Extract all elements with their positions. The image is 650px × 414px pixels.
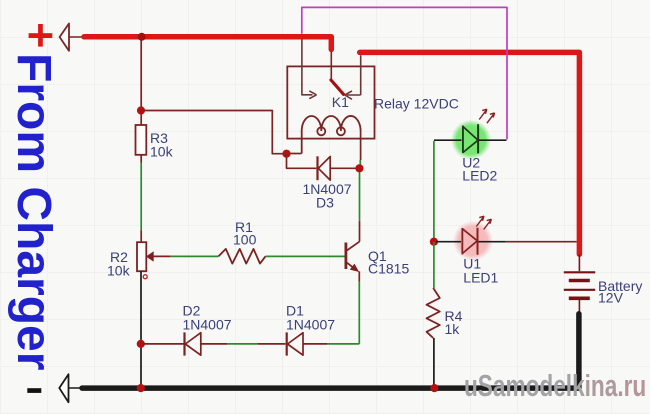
relay K1 box (287, 66, 374, 138)
node junction above R3 (137, 106, 145, 114)
diode D2 (183, 303, 232, 356)
node diode row left junction (137, 340, 145, 348)
wire + rail to battery (thick red) (360, 52, 580, 254)
node From Charger label (7, 53, 60, 370)
node LED1 junction (430, 238, 438, 246)
transistor Q1 emitter (347, 248, 410, 277)
svg-text:1N4007: 1N4007 (183, 316, 232, 332)
svg-text:K1: K1 (332, 94, 349, 110)
wire ground rail (thick black) (82, 314, 579, 388)
relay K1 coil (302, 116, 361, 154)
wire LED1 node down to R4 (green) (433, 242, 435, 288)
svg-text:LED1: LED1 (463, 270, 498, 286)
svg-text:From Charger: From Charger (7, 53, 60, 370)
wire from + rail down to R3 (140, 39, 142, 125)
transistor Q1 base bar (344, 243, 347, 270)
node coil left junction (282, 150, 290, 158)
wire coil left to node (287, 153, 302, 155)
svg-text:uSamodelkina.ru: uSamodelkina.ru (464, 367, 646, 402)
svg-text:D3: D3 (316, 195, 334, 211)
transistor Q1 collector (347, 242, 360, 251)
wire LED2 left down to LED1 node (green) (433, 141, 435, 241)
wire emitter to diode row (358, 271, 360, 344)
wire + rail top (thick red) (84, 37, 331, 50)
diode D3 (303, 156, 352, 210)
watermark (464, 367, 646, 402)
svg-text:1N4007: 1N4007 (286, 316, 335, 332)
label U1 LED1 (463, 256, 498, 286)
potentiometer R2 (107, 242, 153, 279)
node + (charger positive label) (29, 24, 53, 47)
node - (charger negative label) (27, 388, 41, 393)
node junction R2 column on ground rail (137, 384, 145, 392)
svg-text:10k: 10k (107, 263, 131, 279)
node junction on + rail (138, 33, 146, 41)
svg-text:1k: 1k (445, 321, 461, 337)
LED U2 (463, 124, 478, 153)
relay K1 armature (331, 80, 344, 94)
wire D3 to node (330, 167, 357, 169)
terminal arrow charger - (59, 374, 80, 402)
wire collector to D3 node (359, 168, 361, 241)
LED U1 highlight (453, 221, 493, 261)
wire D2 to D1 (201, 343, 286, 345)
svg-text:Relay 12VDC: Relay 12VDC (374, 96, 459, 112)
wire R4 to ground rail (black) (433, 338, 435, 388)
wire LED2 left (434, 139, 462, 141)
wire from R3 node to relay coil node (141, 111, 283, 154)
svg-text:12V: 12V (598, 290, 624, 306)
label U2 LED2 (462, 154, 497, 183)
wire magenta net LED2 anode (302, 7, 507, 139)
node D3 right junction (355, 164, 363, 172)
LED U2 emission arrows (479, 109, 494, 123)
wire LED1 right to battery rail (479, 241, 577, 243)
relay K1 left contact (302, 39, 317, 99)
svg-text:C1815: C1815 (368, 261, 409, 277)
relay K1 right contact (332, 55, 459, 111)
LED U1 emission arrows (476, 216, 491, 229)
LED U2 highlight (451, 120, 491, 160)
resistor R4 (427, 288, 463, 338)
battery BT1 (564, 255, 643, 314)
wire LED2 right to magenta (478, 139, 506, 141)
LED U1 (462, 228, 477, 255)
wire R2 bottom to diode row and ground rail (black) (140, 271, 142, 388)
wire LED1 left (436, 241, 461, 243)
wire R3 to R2 (140, 155, 142, 242)
node junction R4 column on ground rail (430, 384, 438, 392)
svg-text:100: 100 (233, 232, 257, 248)
wire D1 to emitter corner (303, 343, 359, 345)
terminal arrow charger + (60, 24, 82, 51)
wire coil right down to D3 node (359, 131, 361, 167)
svg-text:LED2: LED2 (462, 167, 497, 183)
relay K1 common pin (330, 52, 332, 80)
resistor R3 (136, 125, 174, 159)
resistor R1 (219, 219, 266, 264)
wire node down to D3 (287, 154, 317, 169)
diode D1 (286, 303, 335, 356)
wire R1 to Q1 base (266, 255, 345, 257)
svg-text:10k: 10k (150, 143, 174, 159)
wire node to D2 (141, 343, 184, 345)
wire R2 wiper to R1 (153, 255, 219, 257)
